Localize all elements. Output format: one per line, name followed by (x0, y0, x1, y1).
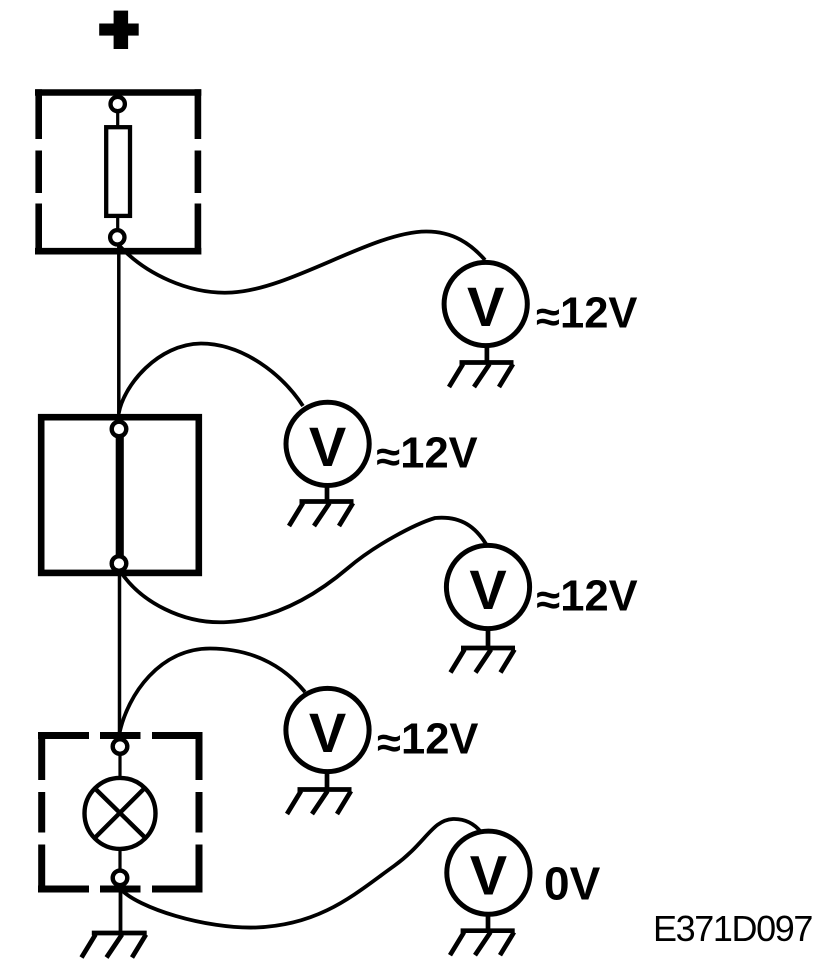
battery positive terminal + (99, 11, 139, 49)
svg-text:0V: 0V (544, 857, 601, 909)
svg-text:V: V (467, 275, 504, 338)
voltmeter V2 (286, 402, 369, 485)
voltmeter V3 ground stub (486, 628, 491, 648)
svg-text:≈: ≈ (536, 294, 560, 342)
wire (lamp top lead) (118, 754, 121, 779)
lamp bottom terminal (113, 871, 128, 886)
voltmeter V4 ground stub (325, 771, 330, 790)
lamp box (dashed) (38, 732, 203, 893)
wire (lamp to ground) (119, 884, 123, 933)
fuse element (106, 127, 130, 216)
voltmeter V4 ground (287, 790, 352, 815)
wire (main feed switch to lamp) (118, 570, 122, 747)
svg-text:≈: ≈ (536, 577, 560, 625)
svg-text:12V: 12V (560, 290, 637, 338)
svg-text:≈: ≈ (376, 433, 400, 481)
lamp (circle with cross) (85, 778, 156, 849)
wire (test lead S-curve to voltmeter V1) (119, 231, 485, 292)
voltmeter V1 (444, 262, 527, 345)
voltmeter V1 ground (449, 363, 514, 388)
wire (test lead S-curve to voltmeter V3) (120, 518, 487, 623)
voltmeter V3 (446, 545, 529, 628)
lamp top terminal (113, 739, 128, 754)
switch box (solid) (41, 417, 199, 573)
wire (lamp bottom lead) (118, 849, 121, 871)
switch top terminal (112, 422, 127, 437)
voltmeter V5 (447, 831, 530, 914)
svg-text:E371D097: E371D097 (653, 908, 812, 949)
voltmeter V5 ground stub (486, 914, 491, 931)
svg-text:V: V (309, 701, 346, 764)
svg-text:V: V (470, 844, 507, 907)
wire (fuse top lead) (116, 112, 119, 128)
svg-text:V: V (469, 558, 506, 621)
main ground (82, 933, 147, 958)
wire (fuse bottom lead) (116, 216, 119, 231)
fuse bottom terminal (110, 230, 124, 244)
wire (main feed fuse to switch) (117, 244, 121, 430)
fuse holder box (dashed) (35, 89, 201, 254)
svg-text:12V: 12V (400, 429, 477, 477)
wire (test lead S-curve to voltmeter V5) (121, 819, 482, 928)
voltmeter V2 ground stub (325, 485, 330, 502)
svg-text:12V: 12V (401, 716, 478, 764)
voltmeter V5 ground (450, 931, 515, 956)
voltmeter V3 ground (451, 648, 516, 673)
voltmeter V2 ground (289, 502, 354, 527)
fuse top terminal (111, 97, 125, 111)
switch bottom terminal (112, 556, 127, 571)
svg-text:V: V (309, 415, 346, 478)
wire (test lead arc to voltmeter V4) (120, 649, 306, 734)
voltmeter V4 (286, 688, 369, 771)
wire (test lead arc to voltmeter V2) (119, 344, 303, 414)
voltmeter V1 ground stub (485, 345, 490, 362)
switch contact bar (116, 436, 124, 558)
svg-text:12V: 12V (560, 573, 637, 621)
svg-text:≈: ≈ (377, 720, 401, 768)
